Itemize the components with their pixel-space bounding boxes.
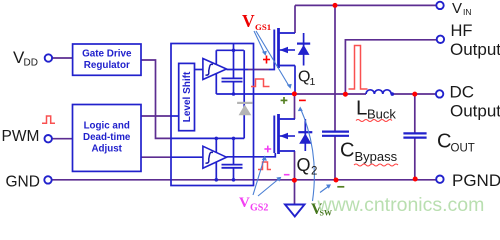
svg-text:Level Shift: Level Shift: [182, 71, 193, 122]
svg-text:DC: DC: [450, 82, 475, 101]
svg-text:2: 2: [311, 165, 317, 177]
svg-text:PGND: PGND: [452, 171, 500, 190]
svg-text:V: V: [242, 11, 255, 31]
svg-text:DD: DD: [24, 58, 38, 69]
svg-text:Q: Q: [297, 155, 311, 175]
svg-text:GS2: GS2: [250, 203, 268, 214]
svg-text:Bypass: Bypass: [355, 149, 398, 164]
svg-text:V: V: [239, 195, 250, 211]
svg-text:HF: HF: [451, 22, 473, 40]
svg-text:C: C: [340, 140, 354, 162]
svg-text:V: V: [452, 0, 462, 17]
svg-text:Output: Output: [450, 101, 500, 120]
svg-text:GS1: GS1: [255, 22, 271, 32]
svg-text:Dead-time: Dead-time: [83, 132, 131, 143]
svg-text:www.cntronics.com: www.cntronics.com: [317, 194, 485, 216]
svg-text:OUT: OUT: [451, 143, 475, 155]
svg-text:1: 1: [310, 76, 316, 88]
svg-text:C: C: [437, 131, 451, 153]
svg-text:GND: GND: [6, 173, 40, 190]
svg-text:L: L: [356, 97, 367, 120]
svg-text:Adjust: Adjust: [91, 144, 122, 155]
svg-text:PWM: PWM: [2, 128, 40, 145]
svg-text:Regulator: Regulator: [84, 60, 130, 71]
svg-text:Output: Output: [450, 40, 500, 59]
svg-text:Logic and: Logic and: [84, 121, 130, 132]
svg-text:IN: IN: [463, 7, 472, 17]
svg-text:Gate Drive: Gate Drive: [82, 48, 132, 59]
